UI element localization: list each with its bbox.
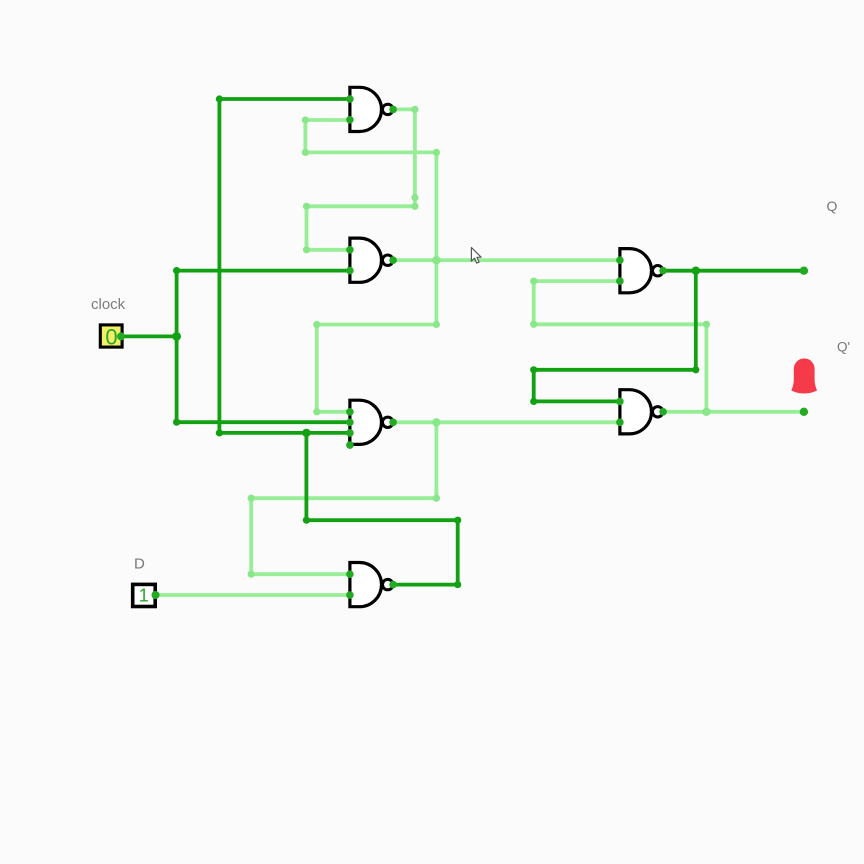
node G6 input B bbox=[616, 419, 624, 427]
junction Q branch bbox=[692, 267, 700, 275]
wire into G6 input A bbox=[534, 399, 620, 403]
NAND gate G5 bbox=[620, 249, 663, 293]
NAND gate G2 bbox=[350, 238, 393, 282]
corner node x305 y152 bbox=[302, 149, 309, 156]
corner node x436 y498 bbox=[433, 495, 440, 502]
node G3 stub node bbox=[346, 441, 354, 449]
corner node x534 y324 bbox=[530, 321, 537, 328]
input CLOCK (value 0) bbox=[100, 324, 122, 349]
corner node x458 y520 bbox=[454, 517, 461, 524]
svg-text:D: D bbox=[134, 556, 145, 573]
wire Q output y=271 bbox=[663, 269, 804, 273]
wire into G1 input B bbox=[305, 118, 350, 122]
node G1 output node bbox=[389, 106, 397, 114]
wire G4.out vertical x=306 bbox=[304, 433, 308, 520]
wire G4.out vertical x=458 bbox=[456, 520, 460, 584]
wire into G5 input B bbox=[534, 279, 620, 283]
corner node x306 y206 bbox=[303, 203, 310, 210]
node D output bbox=[152, 591, 160, 599]
svg-text:Q': Q' bbox=[837, 340, 850, 355]
node G2 output node bbox=[389, 256, 397, 264]
node G5 input A bbox=[616, 256, 624, 264]
wire branch vertical x=317 bbox=[315, 325, 319, 412]
wire Q-bar feedback vertical x=706 bbox=[705, 324, 709, 412]
wire stub below G3 bbox=[348, 433, 352, 445]
mid node x415 y198 bbox=[411, 194, 418, 201]
wire Q-bar feedback vertical x=534 bbox=[532, 281, 536, 324]
wire D input to G4 input B y=595 bbox=[156, 593, 350, 597]
mouse cursor bbox=[471, 248, 481, 264]
wire G3.out to G6 input B y=422 bbox=[393, 420, 620, 424]
wire branch vertical x=436 down bbox=[434, 260, 438, 324]
node G5 output node bbox=[659, 267, 667, 275]
corner node x415 y109 bbox=[411, 106, 418, 113]
wire branch horizontal y=152 bbox=[305, 150, 436, 154]
wire G4.out right y=585 bbox=[393, 583, 458, 587]
svg-text:clock: clock bbox=[91, 296, 126, 313]
wire Q feedback horizontal y=370 bbox=[534, 368, 696, 372]
wire into G4 input A bbox=[251, 572, 350, 576]
wire branch horizontal y=498 bbox=[251, 496, 436, 500]
corner node x317 y324 bbox=[313, 321, 320, 328]
wire G1.out horizontal y=206 bbox=[307, 204, 415, 208]
corner node x317 y412 bbox=[313, 408, 320, 415]
corner node x177 y271 bbox=[173, 267, 180, 274]
svg-text:1: 1 bbox=[139, 586, 149, 606]
input D (value 1) bbox=[133, 584, 156, 606]
corner node x706 y324 bbox=[703, 321, 710, 328]
corner node x458 y585 bbox=[454, 581, 461, 588]
junction Q-bar branch bbox=[702, 408, 710, 416]
corner node x436 y324 bbox=[433, 321, 440, 328]
wire G1.out right segment bbox=[393, 108, 415, 112]
junction G2.out branch bbox=[432, 256, 440, 264]
wire Q-bar feedback horizontal y=324 bbox=[534, 322, 707, 326]
node G3 input A bbox=[346, 408, 354, 416]
node G4 output node bbox=[389, 581, 397, 589]
corner node x251 y498 bbox=[248, 495, 255, 502]
corner node x219 y99 bbox=[216, 95, 223, 102]
wire G4.out horizontal y=520 bbox=[306, 518, 457, 522]
node Q-bar terminal bbox=[800, 408, 808, 416]
wire Q feedback vertical x=696 bbox=[694, 271, 698, 370]
wire into G1 input A y=99 bbox=[219, 97, 350, 101]
wire Q feedback vertical x=534 bbox=[532, 370, 536, 402]
wire clock vertical x=177 bbox=[175, 271, 179, 423]
wire branch vertical x=305 bbox=[303, 120, 307, 152]
corner node x534 y401 bbox=[530, 398, 537, 405]
corner node x306 y520 bbox=[303, 517, 310, 524]
LED Q-bar indicator (red) bbox=[791, 358, 817, 393]
wire to G3 input C y=433 bbox=[219, 431, 350, 435]
NAND gate G3 (3-input) bbox=[350, 400, 393, 444]
wire branch vertical x=251 bbox=[249, 498, 253, 574]
wire branch vertical x=436 to G4 bbox=[434, 422, 438, 498]
node clock output bbox=[117, 332, 125, 340]
wire into G3 input A bbox=[317, 410, 350, 414]
wire feedback vertical x=219 bbox=[217, 99, 221, 433]
corner node x177 y422 bbox=[173, 419, 180, 426]
corner node x415 y206 bbox=[411, 203, 418, 210]
NAND gate G4 bbox=[350, 563, 393, 607]
node G4 input A bbox=[346, 570, 354, 578]
node G2 input A bbox=[346, 246, 354, 254]
wire clock stub y=336 bbox=[121, 334, 177, 338]
corner node x534 y370 bbox=[530, 366, 537, 373]
junction G4.out tap bbox=[302, 429, 310, 437]
wire G1.out vertical x=415 bbox=[413, 109, 417, 206]
wire G2.out to G5 input A y=260 bbox=[393, 258, 620, 262]
corner node x306 y250 bbox=[303, 246, 310, 253]
corner node x696 y370 bbox=[692, 366, 699, 373]
corner node x534 y281 bbox=[530, 278, 537, 285]
node G3 input C bbox=[346, 429, 354, 437]
corner node x251 y574 bbox=[248, 571, 255, 578]
node G4 input B bbox=[346, 591, 354, 599]
svg-text:Q: Q bbox=[827, 198, 838, 214]
NAND gate G6 bbox=[620, 390, 663, 434]
corner node x305 y120 bbox=[302, 116, 309, 123]
node G3 input B bbox=[346, 419, 354, 427]
junction G3.out branch bbox=[432, 418, 440, 426]
node G1 input B bbox=[346, 116, 354, 124]
corner node x436 y152 bbox=[433, 149, 440, 156]
wire G1.out vertical x=306 bbox=[305, 206, 309, 250]
wire clock to G3 input B y=422 bbox=[177, 420, 350, 424]
node G3 output node bbox=[389, 419, 397, 427]
NAND gate G1 bbox=[350, 87, 393, 131]
node Q terminal bbox=[800, 267, 808, 275]
corner node x219 y433 bbox=[216, 429, 223, 436]
wire branch horizontal y=324 bbox=[317, 323, 437, 327]
node G6 input A bbox=[616, 398, 624, 406]
node G6 output node bbox=[659, 408, 667, 416]
junction clock tap bbox=[172, 332, 181, 341]
node G1 input A bbox=[346, 95, 354, 103]
wire clock to G2 input B y=271 bbox=[177, 269, 350, 273]
wire Q-bar output y=412 bbox=[663, 410, 804, 414]
node G5 input B bbox=[616, 277, 624, 285]
node G2 input B bbox=[346, 267, 354, 275]
svg-text:0: 0 bbox=[105, 324, 117, 349]
wire branch vertical x=436 up bbox=[434, 152, 438, 260]
wire into G2 input A bbox=[307, 248, 350, 252]
